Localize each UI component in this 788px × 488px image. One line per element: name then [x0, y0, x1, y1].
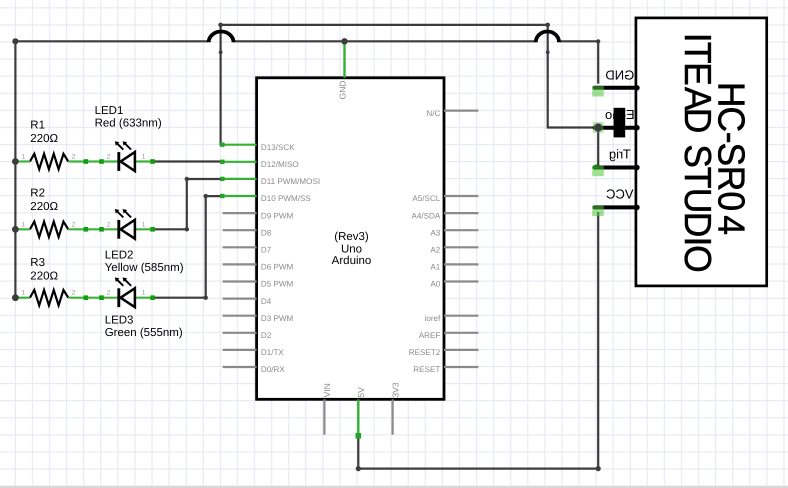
svg-text:D10 PWM/SS: D10 PWM/SS [261, 194, 312, 203]
svg-text:RESET: RESET [413, 365, 440, 374]
svg-text:N/C: N/C [426, 109, 440, 118]
svg-text:VCC: VCC [606, 187, 633, 202]
svg-text:R3: R3 [30, 257, 45, 269]
svg-text:R: R [710, 166, 752, 192]
svg-text:1: 1 [22, 290, 26, 297]
svg-text:D3 PWM: D3 PWM [261, 314, 294, 323]
svg-text:1: 1 [22, 154, 26, 161]
svg-text:AREF: AREF [419, 331, 441, 340]
svg-text:D1/TX: D1/TX [261, 348, 285, 357]
svg-text:H: H [710, 82, 752, 108]
svg-text:LED2: LED2 [105, 249, 134, 261]
svg-text:LED3: LED3 [105, 315, 134, 327]
svg-text:220Ω: 220Ω [30, 271, 58, 283]
svg-text:D12/MISO: D12/MISO [261, 160, 299, 169]
svg-text:D9 PWM: D9 PWM [261, 211, 294, 220]
svg-text:A3: A3 [430, 228, 440, 237]
svg-text:220Ω: 220Ω [30, 133, 58, 145]
svg-text:Yellow (585nm): Yellow (585nm) [105, 262, 184, 274]
svg-text:GND: GND [337, 81, 347, 100]
svg-text:2: 2 [72, 290, 76, 297]
svg-text:D0/RX: D0/RX [261, 365, 285, 374]
svg-text:O: O [676, 245, 718, 273]
svg-text:(Rev3): (Rev3) [334, 231, 369, 243]
svg-text:D5 PWM: D5 PWM [261, 280, 294, 289]
svg-text:D7: D7 [261, 246, 272, 255]
svg-text:A0: A0 [430, 280, 440, 289]
svg-text:D11 PWM/MOSI: D11 PWM/MOSI [261, 177, 320, 186]
svg-text:2: 2 [72, 154, 76, 161]
svg-text:3V3: 3V3 [390, 382, 400, 397]
svg-text:4: 4 [710, 215, 752, 235]
svg-text:1: 1 [142, 221, 146, 228]
svg-text:A2: A2 [430, 246, 440, 255]
svg-text:0: 0 [710, 191, 752, 211]
svg-text:A1: A1 [430, 263, 440, 272]
svg-text:2: 2 [107, 290, 111, 297]
svg-text:220Ω: 220Ω [30, 201, 58, 213]
svg-text:R1: R1 [30, 120, 45, 132]
svg-text:VIN: VIN [322, 383, 332, 397]
svg-text:1: 1 [142, 154, 146, 161]
svg-text:1: 1 [142, 290, 146, 297]
svg-text:C: C [710, 107, 752, 133]
svg-text:1: 1 [22, 221, 26, 228]
svg-text:D6 PWM: D6 PWM [261, 263, 294, 272]
svg-text:Arduino: Arduino [332, 255, 372, 267]
svg-text:R2: R2 [30, 187, 45, 199]
svg-text:5V: 5V [356, 387, 366, 398]
svg-text:LED1: LED1 [95, 105, 124, 117]
svg-text:T: T [676, 42, 718, 64]
svg-text:D2: D2 [261, 331, 272, 340]
svg-text:2: 2 [107, 221, 111, 228]
svg-text:GND: GND [605, 67, 634, 82]
svg-text:2: 2 [72, 221, 76, 228]
svg-text:Trig: Trig [609, 147, 631, 162]
svg-text:Green (555nm): Green (555nm) [105, 327, 183, 339]
svg-text:Red (633nm): Red (633nm) [95, 117, 162, 129]
svg-text:D8: D8 [261, 228, 272, 237]
svg-text:D4: D4 [261, 297, 272, 306]
svg-text:2: 2 [107, 154, 111, 161]
svg-text:S: S [710, 143, 752, 167]
svg-text:D13/SCK: D13/SCK [261, 143, 295, 152]
svg-text:ioref: ioref [425, 314, 441, 323]
svg-text:A4/SDA: A4/SDA [412, 211, 441, 220]
svg-text:A5/SCL: A5/SCL [412, 194, 440, 203]
svg-text:Uno: Uno [341, 244, 362, 256]
svg-text:RESET2: RESET2 [409, 348, 441, 357]
